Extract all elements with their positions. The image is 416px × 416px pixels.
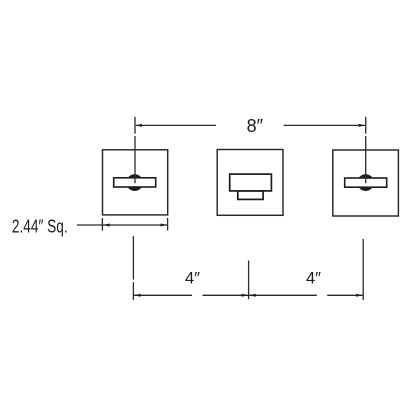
- svg-text:4″: 4″: [185, 270, 200, 288]
- svg-text:2.44″ Sq.: 2.44″ Sq.: [12, 217, 68, 237]
- svg-text:4″: 4″: [306, 270, 321, 288]
- svg-text:8″: 8″: [247, 116, 264, 136]
